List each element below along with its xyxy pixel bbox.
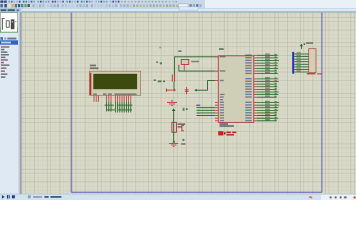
MCU pin XTAL2 stub xyxy=(215,70,218,72)
junction node xyxy=(173,89,175,91)
net mark above xyxy=(183,108,188,111)
right wire end markers xyxy=(275,54,277,121)
capacitor C1 (plates) xyxy=(172,74,175,81)
LCD wires to nets (green) xyxy=(107,102,131,113)
MCU value text AT89C51 xyxy=(220,123,235,127)
status message text xyxy=(33,196,61,198)
ground terminal GND3 xyxy=(169,143,178,146)
preview view box (green) xyxy=(0,28,17,33)
selected device row xyxy=(0,40,18,44)
preview schematic glyphs xyxy=(2,18,16,30)
wire XTAL2 bottom xyxy=(179,65,215,71)
wires P1 to LCD nets xyxy=(197,108,216,116)
MCU pin RST stub xyxy=(215,80,218,82)
device list items xyxy=(1,46,10,78)
MCU U1 AT89C51 body xyxy=(218,56,253,123)
wire C1 to junction xyxy=(173,82,175,90)
MCU left pin names P1.0-P1.7 xyxy=(220,102,224,122)
LCD net labels (green text) xyxy=(105,104,133,110)
wire RST xyxy=(197,81,215,91)
status message icon xyxy=(28,195,31,198)
preview pane xyxy=(0,13,17,33)
crystal X1 xyxy=(181,60,189,65)
simulation step button xyxy=(7,195,10,198)
object selector panel xyxy=(0,12,18,194)
MCU left pins P1 stubs xyxy=(215,103,218,121)
document tab xyxy=(0,9,22,13)
simulation stop button xyxy=(12,195,15,198)
ground terminal GND1 xyxy=(166,89,173,92)
wire vertical to resistor xyxy=(173,111,175,143)
respack RP1 body xyxy=(309,49,316,73)
right wire net labels xyxy=(265,54,270,121)
power terminal arrow up xyxy=(172,108,176,111)
net label on P1 wires xyxy=(196,105,200,106)
toolbar icons xyxy=(0,1,201,8)
resistor R3 labels xyxy=(178,123,186,127)
resistor R3 xyxy=(172,122,177,132)
sheet border left edge xyxy=(70,12,72,192)
LCD pins (red stubs) xyxy=(94,96,131,102)
junction dot bottom xyxy=(173,141,175,143)
LCD pin name labels xyxy=(93,93,136,95)
net label second mark xyxy=(154,79,165,82)
LCD LCD1 reference label xyxy=(90,65,99,70)
power terminal at respack xyxy=(300,43,305,49)
status right icons xyxy=(309,196,356,199)
respack pin labels xyxy=(297,52,301,71)
toolbar dropdown box xyxy=(179,7,198,10)
MCU U1 reference label xyxy=(219,48,224,50)
LCD left edge red bar xyxy=(90,73,92,96)
status bar xyxy=(0,194,356,200)
LED D1 labels xyxy=(226,132,236,136)
MCU right pin name text xyxy=(245,54,251,121)
wire XTAL1 top xyxy=(175,57,219,75)
wires MCU right to net labels xyxy=(257,55,279,121)
sheet border right edge xyxy=(321,12,323,192)
crystal X1 value text xyxy=(191,61,199,63)
toolbar background xyxy=(0,0,356,9)
terminal arrow on RST wire xyxy=(194,89,197,92)
net mark right bottom xyxy=(181,139,185,145)
devices header row xyxy=(0,37,16,40)
LCD LCD1 LM016L body xyxy=(90,71,141,95)
net label speck xyxy=(159,47,161,49)
capacitor C4 bracket xyxy=(181,125,184,131)
tab bar xyxy=(0,9,356,12)
bus P0 (blue) xyxy=(292,52,294,74)
ground terminal GND2 xyxy=(167,100,177,106)
MCU right pins P0 P2 P3 (red stubs) xyxy=(254,55,257,121)
crystal X1 label xyxy=(178,50,181,52)
sheet border bottom edge xyxy=(71,191,322,193)
LED D1 xyxy=(218,131,225,135)
respack value text RESPACK-8 xyxy=(307,73,323,75)
wires bus to respack xyxy=(294,54,309,72)
simulation play button xyxy=(2,195,5,199)
respack RP1 label xyxy=(306,42,313,44)
net label near XTAL wire xyxy=(156,61,162,64)
crystal leg pin xyxy=(183,64,185,70)
MCU left pin names PSEN ALE EA xyxy=(220,94,225,101)
capacitor C2 xyxy=(185,87,189,94)
MCU left pin names XTAL1 XTAL2 RST xyxy=(220,56,226,81)
MCU pin XTAL1 stub xyxy=(215,56,218,58)
